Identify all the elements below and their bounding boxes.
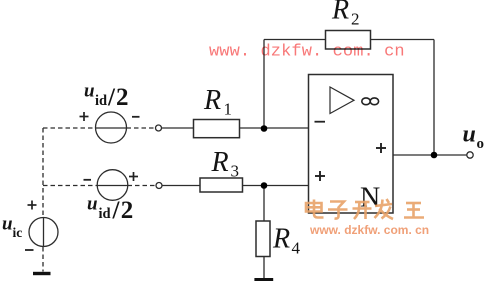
svg-text:o: o <box>477 136 485 152</box>
watermark chinese 电 <box>306 200 324 218</box>
minus sign uic <box>25 249 34 251</box>
wire diameter line uic source <box>43 218 45 247</box>
resistor R1 <box>194 120 240 138</box>
source Uid/2 top circle <box>96 112 127 143</box>
node junction dot inverting input <box>261 125 268 132</box>
svg-text:3: 3 <box>231 162 240 181</box>
resistor R4 <box>256 221 270 257</box>
wire dashed row A left <box>43 127 96 129</box>
svg-text:u: u <box>84 81 95 102</box>
op-amp plus input sign <box>315 171 325 181</box>
svg-text:R: R <box>272 224 290 255</box>
wire feedback left vertical <box>263 40 265 129</box>
op-amp U rectangle <box>309 75 394 214</box>
op-amp output plus sign <box>376 143 386 153</box>
op-amp infinity symbol <box>362 98 370 105</box>
ground uic <box>33 272 51 275</box>
watermark chinese 开 <box>353 202 372 219</box>
svg-text:id: id <box>95 93 107 109</box>
node junction dot noninverting input <box>261 182 268 189</box>
terminal open circle row B <box>156 183 162 189</box>
resistor R3 <box>200 178 243 192</box>
wire R1 to op-amp <box>240 127 309 129</box>
wire R3 to op-amp <box>243 185 309 187</box>
svg-text:4: 4 <box>292 239 301 258</box>
source Uic circle <box>29 218 58 247</box>
terminal open circle row A <box>156 125 162 131</box>
svg-text:id: id <box>99 206 111 222</box>
source Uid/2 bottom circle <box>97 170 128 201</box>
svg-text:2: 2 <box>351 10 360 29</box>
wire output <box>393 154 467 156</box>
minus sign bottom source <box>84 179 92 181</box>
terminal open circle output <box>467 152 473 158</box>
op-amp minus input sign <box>315 121 326 123</box>
wire feedback top right <box>371 39 435 41</box>
ground R4 <box>254 278 273 281</box>
svg-text:/2: /2 <box>112 197 135 224</box>
watermark chinese 发 <box>375 199 394 219</box>
resistor R2 <box>326 31 371 50</box>
svg-text:R: R <box>211 147 229 178</box>
svg-text:u: u <box>87 194 98 215</box>
wire dashed row B right of source <box>128 185 157 187</box>
wire dashed row A right of source <box>127 127 156 129</box>
wire row A terminal to R1 <box>162 127 194 129</box>
wire R4 bottom <box>263 257 265 279</box>
wire feedback right vertical <box>433 40 435 156</box>
wire row B terminal to R3 <box>162 185 200 187</box>
svg-text:/2: /2 <box>107 84 129 111</box>
wire diameter line top source <box>96 127 127 129</box>
svg-text:R: R <box>203 85 221 116</box>
svg-text:u: u <box>463 122 476 148</box>
wire diameter line bottom source <box>98 185 128 187</box>
svg-text:1: 1 <box>224 100 233 119</box>
svg-text:u: u <box>2 213 13 234</box>
plus sign bottom source <box>129 172 138 181</box>
wire feedback top left <box>264 39 326 41</box>
svg-text:ic: ic <box>13 225 23 240</box>
plus sign top source <box>80 112 89 121</box>
svg-text:R: R <box>331 0 349 26</box>
wire dashed row B left <box>43 185 98 187</box>
wire dashed left vertical (common-mode bus) <box>42 128 44 218</box>
op-amp triangle <box>330 87 354 114</box>
watermark chinese 子 <box>328 202 348 219</box>
plus sign uic <box>28 201 37 210</box>
watermark chinese 王 <box>404 203 424 218</box>
wire R4 top <box>263 186 265 222</box>
svg-text:www. dzkfw. com. cn: www. dzkfw. com. cn <box>209 43 405 62</box>
svg-text:www. dzkfw. com. cn: www. dzkfw. com. cn <box>309 223 429 237</box>
wire dashed u_ic to ground <box>42 247 44 272</box>
node junction dot output <box>431 152 438 159</box>
minus sign top source <box>132 116 140 118</box>
